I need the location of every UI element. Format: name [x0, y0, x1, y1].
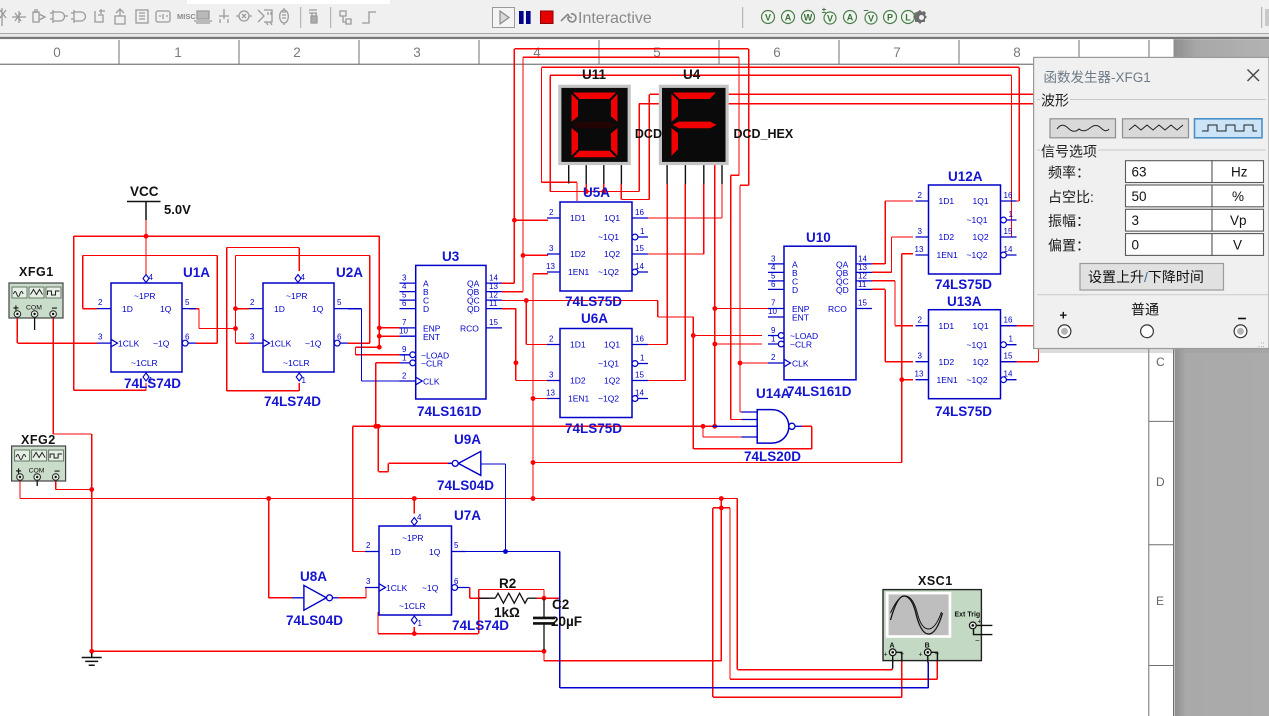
- svg-text:1Q2: 1Q2: [604, 376, 620, 386]
- svg-text:~1PR: ~1PR: [134, 291, 156, 301]
- svg-text:~1Q1: ~1Q1: [967, 340, 988, 350]
- svg-text:U13A: U13A: [947, 294, 982, 309]
- svg-text:1Q: 1Q: [429, 547, 441, 557]
- svg-text:U11: U11: [582, 67, 607, 82]
- svg-text:CLK: CLK: [423, 377, 440, 387]
- svg-text:~1Q1: ~1Q1: [598, 359, 619, 369]
- svg-text:CLK: CLK: [792, 359, 809, 369]
- svg-text:5: 5: [185, 298, 190, 307]
- svg-text:+: +: [919, 652, 923, 659]
- flip-flop U7A 74LS74D: [365, 513, 470, 628]
- svg-text:QD: QD: [467, 304, 480, 314]
- wire U7A ~1Q to R2, RC node loop, ~1CLR run: [378, 588, 560, 634]
- capacitor C2 20uF: [533, 598, 555, 650]
- svg-text:V: V: [1233, 238, 1242, 253]
- instrument XFG2 function generator: [12, 446, 66, 481]
- svg-text:RCO: RCO: [828, 304, 847, 314]
- svg-text:1D1: 1D1: [570, 340, 586, 350]
- svg-text:5.0V: 5.0V: [164, 202, 191, 217]
- svg-text:1D: 1D: [122, 304, 133, 314]
- svg-text:14: 14: [1004, 370, 1013, 379]
- latch U5A 74LS75D: [546, 202, 648, 291]
- svg-text:1: 1: [174, 45, 182, 60]
- svg-text:~1Q2: ~1Q2: [598, 267, 619, 277]
- latch U6A 74LS75D: [546, 329, 648, 418]
- svg-text:C2: C2: [552, 597, 569, 612]
- svg-text:U6A: U6A: [581, 311, 608, 326]
- wire net QA: U3.QA to U5A.1D1, top run, U14A in1, U10.CLK: [502, 49, 768, 412]
- svg-text:~CLR: ~CLR: [421, 359, 443, 369]
- wire U11 pin1 from U12A.1Q1 via top run: [542, 67, 1020, 201]
- svg-text:振幅：: 振幅：: [1048, 213, 1090, 229]
- svg-text:~1Q2: ~1Q2: [598, 394, 619, 404]
- svg-text:1kΩ: 1kΩ: [494, 605, 520, 620]
- svg-text:16: 16: [1004, 191, 1013, 200]
- svg-text:DCD_HEX: DCD_HEX: [734, 127, 794, 141]
- svg-text:ENT: ENT: [792, 312, 809, 322]
- svg-text:3: 3: [1132, 213, 1140, 228]
- svg-text:~1CLR: ~1CLR: [283, 358, 310, 368]
- svg-text:D: D: [423, 304, 429, 314]
- svg-text:−: −: [975, 636, 980, 645]
- svg-text:2: 2: [549, 208, 554, 217]
- svg-text:频率：: 频率：: [1048, 165, 1090, 181]
- svg-text:ENT: ENT: [423, 332, 440, 342]
- svg-text:3: 3: [250, 333, 255, 342]
- svg-text:3: 3: [918, 227, 923, 236]
- svg-text:74LS75D: 74LS75D: [565, 294, 622, 309]
- svg-text:1D1: 1D1: [939, 196, 955, 206]
- svg-text:1: 1: [640, 354, 645, 363]
- svg-text:U10: U10: [806, 230, 831, 245]
- svg-text:U2A: U2A: [336, 265, 363, 280]
- svg-text:2: 2: [918, 316, 923, 325]
- wire VCC to U3 ENP/ENT/~LOAD: [356, 236, 400, 355]
- svg-text:Ext Trig: Ext Trig: [955, 612, 981, 619]
- svg-text:20µF: 20µF: [551, 614, 582, 629]
- svg-text:1Q1: 1Q1: [973, 196, 989, 206]
- svg-text:U4: U4: [683, 67, 701, 82]
- svg-text:6: 6: [454, 577, 459, 586]
- svg-text:普通: 普通: [1131, 302, 1159, 318]
- svg-text:1: 1: [1009, 335, 1014, 344]
- nand gate U14A 74LS20D: [712, 410, 802, 444]
- XFG2 COM stub: [36, 481, 38, 486]
- svg-text:1Q2: 1Q2: [973, 232, 989, 242]
- svg-text:6: 6: [771, 280, 776, 289]
- wire U3 ~CLR to reset net: [376, 363, 400, 426]
- svg-text:2: 2: [293, 45, 301, 60]
- instrument XFG1 function generator: [9, 283, 63, 318]
- svg-text:~1Q2: ~1Q2: [967, 375, 988, 385]
- wire XFG2 plus long net to U8A, U7A ~1PR, scope risers: [20, 481, 937, 697]
- svg-text:~1Q: ~1Q: [422, 583, 439, 593]
- svg-text:QD: QD: [836, 285, 849, 295]
- wire U10 ENP and ~CLR feeds: [715, 104, 768, 427]
- svg-text:1EN1: 1EN1: [568, 394, 590, 404]
- svg-text:VCC: VCC: [130, 184, 159, 199]
- svg-text:1Q1: 1Q1: [604, 213, 620, 223]
- svg-text:4: 4: [301, 273, 306, 282]
- svg-text:5: 5: [454, 541, 459, 550]
- seven-segment display U4 (shows F): [659, 85, 729, 184]
- svg-text:~1Q: ~1Q: [305, 339, 322, 349]
- XFG1 COM stub: [34, 318, 36, 330]
- svg-text:1Q: 1Q: [312, 304, 324, 314]
- svg-text:13: 13: [915, 245, 924, 254]
- svg-text:15: 15: [635, 244, 644, 253]
- svg-text:R2: R2: [499, 576, 516, 591]
- svg-text:±: ±: [822, 6, 827, 15]
- svg-text:2: 2: [918, 191, 923, 200]
- wire U10.QC to U13A.1D1: [872, 281, 913, 326]
- svg-text:1Q1: 1Q1: [973, 321, 989, 331]
- svg-text:11: 11: [489, 299, 498, 308]
- svg-text:~CLR: ~CLR: [790, 340, 812, 350]
- svg-text:74LS161D: 74LS161D: [417, 404, 482, 419]
- wire net QD: U3.QD to U6A.1D2: [502, 309, 548, 381]
- svg-text:1: 1: [1009, 210, 1014, 219]
- wire U6A outputs to U4 pins 1,2: [648, 184, 685, 381]
- svg-text:1D1: 1D1: [570, 213, 586, 223]
- svg-text:14: 14: [635, 262, 644, 271]
- svg-text:U7A: U7A: [454, 508, 481, 523]
- svg-text:6: 6: [773, 45, 781, 60]
- svg-text:V: V: [765, 13, 771, 23]
- wire U5A outputs to U4 pins 3,4: [648, 184, 722, 254]
- svg-text:W: W: [804, 13, 813, 23]
- svg-text:3: 3: [549, 244, 554, 253]
- wire U1A ~1Q loop to 1D: [83, 256, 218, 344]
- svg-text:1CLK: 1CLK: [118, 339, 140, 349]
- wire U14A output loop to U10 ENT and ~LOAD: [693, 317, 812, 449]
- svg-text:63: 63: [1132, 165, 1147, 180]
- svg-text:1CLK: 1CLK: [270, 339, 292, 349]
- ground: [82, 653, 102, 665]
- svg-text:1EN1: 1EN1: [937, 375, 959, 385]
- svg-text:15: 15: [1004, 227, 1013, 236]
- svg-text:A: A: [785, 13, 792, 23]
- svg-text:16: 16: [635, 335, 644, 344]
- svg-text:2: 2: [98, 298, 103, 307]
- svg-text:74LS75D: 74LS75D: [935, 404, 992, 419]
- svg-text:XFG1: XFG1: [19, 265, 54, 279]
- wire U10.QA to U12A.1D1: [872, 201, 913, 264]
- wire U10.QB to U12A.1D2: [872, 237, 913, 272]
- wire net QC: U3.QC to U6A.1D1 and U10 side: [502, 301, 693, 345]
- svg-text:1D: 1D: [274, 304, 285, 314]
- svg-text:3: 3: [918, 352, 923, 361]
- junction dot blue: [503, 549, 508, 554]
- wire latch enable net U5A/U6A/U12A/U13A 1EN1: [533, 254, 913, 499]
- counter U10 74LS161D: [768, 246, 872, 380]
- svg-text:2: 2: [549, 335, 554, 344]
- svg-text:1: 1: [418, 619, 423, 628]
- svg-text:1D2: 1D2: [939, 357, 955, 367]
- wire U2A preset/clear loop to VCC: [227, 248, 300, 391]
- svg-text:~1Q: ~1Q: [153, 339, 170, 349]
- svg-text:信号选项: 信号选项: [1041, 144, 1097, 160]
- resistor R2 1k: [479, 593, 537, 603]
- svg-text:1Q2: 1Q2: [604, 249, 620, 259]
- wire U8A output to U7A 1CLK: [338, 588, 366, 598]
- seven-segment display U11 (shows 0): [558, 85, 631, 184]
- svg-text:1: 1: [402, 354, 407, 363]
- svg-text:+: +: [884, 652, 888, 659]
- svg-text:1D1: 1D1: [939, 321, 955, 331]
- wire net QB: U3.QB to U5A.1D2, top run, U14A in2: [502, 57, 742, 419]
- svg-text:U12A: U12A: [948, 169, 983, 184]
- svg-text:1Q: 1Q: [160, 304, 172, 314]
- svg-text:+: +: [1060, 308, 1068, 323]
- wire U2A.1Q to U3.CLK (blue): [348, 309, 400, 381]
- svg-text:~1Q1: ~1Q1: [598, 232, 619, 242]
- wire U11 pin4 from U13A.1Q2 via mid run: [621, 94, 1038, 361]
- svg-text:74LS74D: 74LS74D: [124, 376, 181, 391]
- svg-text:1CLK: 1CLK: [386, 583, 408, 593]
- oscilloscope XSC1: [883, 590, 982, 661]
- svg-text:14: 14: [1004, 245, 1013, 254]
- svg-text:74LS75D: 74LS75D: [565, 421, 622, 436]
- svg-text:15: 15: [489, 318, 498, 327]
- wire U2A ~1Q loop: [236, 256, 370, 344]
- svg-text:15: 15: [1004, 352, 1013, 361]
- svg-text:U8A: U8A: [300, 569, 327, 584]
- svg-text:16: 16: [1004, 316, 1013, 325]
- svg-text:1D2: 1D2: [939, 232, 955, 242]
- svg-text:U3: U3: [442, 249, 460, 264]
- svg-text:.::: .::: [1258, 340, 1265, 349]
- svg-text:74LS74D: 74LS74D: [452, 618, 509, 633]
- svg-text:13: 13: [546, 262, 555, 271]
- svg-text:MISC: MISC: [177, 12, 196, 21]
- svg-text:C: C: [1156, 355, 1165, 369]
- flip-flop U1A 74LS74D: [97, 273, 196, 385]
- wire XFG1 plus to U1A 1CLK: [17, 318, 97, 343]
- svg-text:U1A: U1A: [183, 265, 210, 280]
- svg-text:3: 3: [549, 371, 554, 380]
- svg-text:0: 0: [53, 45, 61, 60]
- svg-text:函数发生器-XFG1: 函数发生器-XFG1: [1044, 70, 1151, 85]
- svg-text:A: A: [847, 13, 854, 23]
- svg-text:74LS161D: 74LS161D: [787, 384, 852, 399]
- svg-text:3: 3: [98, 333, 103, 342]
- svg-text:~1PR: ~1PR: [402, 533, 424, 543]
- svg-text:1: 1: [302, 376, 307, 385]
- svg-text:Hz: Hz: [1231, 165, 1248, 180]
- svg-text:15: 15: [635, 371, 644, 380]
- power VCC 5.0V: [127, 184, 191, 220]
- svg-text:8: 8: [1013, 45, 1021, 60]
- svg-text:10: 10: [768, 307, 777, 316]
- SHEET RIGHT BORDER COLUMN: [1149, 348, 1174, 716]
- svg-text:74LS74D: 74LS74D: [264, 394, 321, 409]
- latch U13A 74LS75D: [915, 310, 1017, 399]
- svg-text:P: P: [887, 13, 893, 23]
- svg-text:1D: 1D: [390, 547, 401, 557]
- svg-text:+: +: [978, 619, 982, 626]
- svg-text:74LS04D: 74LS04D: [437, 478, 494, 493]
- wire U1A 1Q to U2A 1D: [189, 309, 236, 329]
- svg-text:D: D: [1156, 475, 1165, 489]
- svg-text:Interactive: Interactive: [578, 10, 652, 27]
- svg-text:1: 1: [640, 227, 645, 236]
- wire VCC rail: [74, 220, 380, 390]
- svg-text:D: D: [792, 285, 798, 295]
- svg-text:~1CLR: ~1CLR: [131, 358, 158, 368]
- wire XFG1 minus / XFG2 minus to ground: [53, 318, 721, 661]
- wire U10.QD to U13A.1D2: [872, 289, 913, 361]
- scope terminal leads (black): [893, 625, 993, 668]
- svg-text:U9A: U9A: [454, 432, 481, 447]
- inverter U8A 74LS04D: [292, 585, 338, 610]
- svg-text:偏置：: 偏置：: [1048, 237, 1090, 253]
- svg-text:1D2: 1D2: [570, 376, 586, 386]
- svg-text:~1Q2: ~1Q2: [967, 250, 988, 260]
- RULER: [0, 39, 1269, 65]
- svg-text:74LS75D: 74LS75D: [935, 277, 992, 292]
- svg-text:4: 4: [417, 513, 422, 522]
- svg-text:1: 1: [771, 334, 776, 343]
- svg-text:15: 15: [858, 299, 867, 308]
- svg-text:2: 2: [771, 353, 776, 362]
- svg-text:13: 13: [546, 389, 555, 398]
- wire U7A.1Q to U9A input and scope B+ (blue): [466, 464, 929, 688]
- svg-text:13: 13: [915, 370, 924, 379]
- svg-text:2: 2: [366, 541, 371, 550]
- wire U11 pin2 from U12A.1Q2 via top run: [550, 75, 1011, 237]
- svg-text:E: E: [1156, 594, 1164, 608]
- svg-text:1EN1: 1EN1: [937, 250, 959, 260]
- svg-text:11: 11: [858, 280, 867, 289]
- svg-text:2: 2: [402, 372, 407, 381]
- svg-text:设置上升/下降时间: 设置上升/下降时间: [1088, 269, 1204, 285]
- svg-text:10: 10: [399, 327, 408, 336]
- svg-text:1Q1: 1Q1: [604, 340, 620, 350]
- svg-text:3: 3: [366, 577, 371, 586]
- svg-text:波形: 波形: [1041, 93, 1069, 109]
- svg-text:14: 14: [635, 389, 644, 398]
- svg-text:2: 2: [250, 298, 255, 307]
- svg-text:L: L: [905, 13, 911, 23]
- svg-text:16: 16: [635, 208, 644, 217]
- svg-text:RCO: RCO: [460, 323, 479, 333]
- svg-text:XSC1: XSC1: [918, 574, 953, 588]
- svg-text:–: –: [863, 5, 868, 15]
- svg-text:0: 0: [1132, 238, 1140, 253]
- svg-text:50: 50: [1132, 189, 1147, 204]
- svg-text:~1PR: ~1PR: [286, 291, 308, 301]
- svg-text:U5A: U5A: [583, 185, 610, 200]
- flip-flop U2A 74LS74D: [249, 273, 348, 385]
- svg-text:74LS04D: 74LS04D: [286, 613, 343, 628]
- svg-text:~1Q1: ~1Q1: [967, 215, 988, 225]
- svg-text:1Q2: 1Q2: [973, 357, 989, 367]
- svg-text:5: 5: [337, 298, 342, 307]
- svg-text:~1CLR: ~1CLR: [399, 601, 426, 611]
- counter U3 74LS161D: [399, 265, 502, 399]
- wire U11 pin3 from U13A.1Q1 via mid run: [604, 104, 1036, 326]
- svg-text:6: 6: [337, 333, 342, 342]
- inverter U9A 74LS04D (points left): [448, 451, 481, 475]
- svg-text:%: %: [1232, 189, 1244, 204]
- svg-text:Vp: Vp: [1230, 213, 1247, 228]
- svg-text:V: V: [827, 14, 833, 24]
- svg-text:1D2: 1D2: [570, 249, 586, 259]
- svg-text:74LS20D: 74LS20D: [744, 449, 801, 464]
- svg-text:3: 3: [413, 45, 421, 60]
- wire U9A output to U14A in3/in4 and U7A 1D: [353, 426, 742, 551]
- svg-text:U14A: U14A: [756, 386, 791, 401]
- latch U12A 74LS75D: [915, 185, 1017, 274]
- svg-text:V: V: [868, 14, 874, 24]
- svg-text:1EN1: 1EN1: [568, 267, 590, 277]
- TOOLBAR: [0, 0, 1269, 39]
- svg-text:4: 4: [149, 273, 154, 282]
- svg-text:DCD: DCD: [635, 127, 662, 141]
- svg-text:XFG2: XFG2: [21, 433, 56, 447]
- svg-text:7: 7: [893, 45, 901, 60]
- svg-text:6: 6: [402, 299, 407, 308]
- svg-text:6: 6: [185, 333, 190, 342]
- svg-text:占空比:: 占空比:: [1048, 189, 1094, 205]
